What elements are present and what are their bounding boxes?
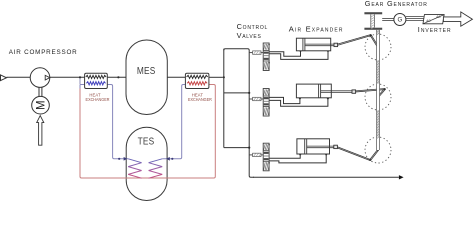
svg-text:Control: Control (237, 22, 268, 31)
svg-text:EXCHANGER: EXCHANGER (188, 97, 212, 102)
svg-text:AC: AC (436, 15, 441, 19)
svg-text:MES: MES (137, 64, 156, 76)
svg-text:AIR COMPRESSOR: AIR COMPRESSOR (9, 49, 78, 56)
svg-text:EXCHANGER: EXCHANGER (86, 97, 110, 102)
svg-text:Gear Generator: Gear Generator (365, 0, 428, 8)
svg-text:Valves: Valves (237, 31, 262, 40)
svg-text:G: G (397, 17, 402, 24)
svg-text:M: M (36, 100, 48, 110)
svg-text:AC: AC (426, 19, 431, 23)
svg-text:Inverter: Inverter (418, 25, 452, 34)
svg-text:TES: TES (138, 134, 155, 146)
svg-text:Air Expander: Air Expander (289, 25, 344, 34)
